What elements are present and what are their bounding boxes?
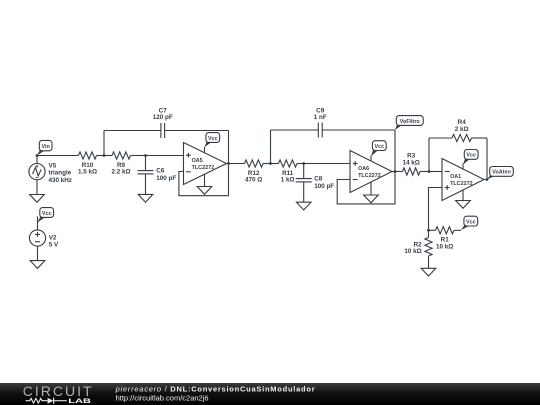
svg-text:470 Ω: 470 Ω: [245, 177, 262, 184]
resistor R9 2.2 k&#937;: [111, 152, 130, 176]
svg-text:C6: C6: [156, 168, 165, 175]
svg-text:100 pF: 100 pF: [314, 183, 334, 190]
footer bar: [0, 383, 540, 405]
svg-text:1 kΩ: 1 kΩ: [281, 177, 295, 184]
power flag Vcc (OA1): [463, 150, 478, 165]
junction R1/R2: [427, 229, 430, 232]
svg-text:2 kΩ: 2 kΩ: [455, 126, 469, 133]
ground (OA1): [456, 201, 471, 209]
svg-text:Vcc: Vcc: [375, 144, 385, 150]
ground (OA6): [364, 195, 379, 203]
resistor R1 10 k&#937;: [436, 227, 455, 251]
node label Vin: [37, 140, 52, 155]
wire Vcc flag to V2: [37, 216, 39, 230]
wire R9 to node: [131, 155, 146, 157]
wire C9 branch left: [271, 130, 319, 164]
power flag Vcc (OA6): [371, 141, 386, 157]
svg-text:10 kΩ: 10 kΩ: [404, 248, 421, 255]
wire node to OA1 -in: [429, 171, 442, 173]
resistor R11 1 k&#937;: [279, 160, 298, 184]
svg-text:VoAten: VoAten: [492, 170, 510, 176]
node label VoFiltro: [395, 116, 423, 130]
op-amp OA5 TLC2272: [184, 143, 227, 185]
ground (V5): [30, 195, 45, 203]
voltage source V2 5 V: [29, 230, 59, 261]
ground (R2): [421, 268, 436, 276]
wire R12 to node: [263, 163, 271, 165]
ground (C8): [296, 202, 311, 210]
wire C7 branch left: [104, 131, 161, 156]
capacitor C7 120 pF: [153, 107, 173, 138]
wire node to R1: [429, 229, 436, 231]
svg-text:1.5 kΩ: 1.5 kΩ: [78, 169, 97, 176]
wire C7 branch right: [165, 131, 229, 164]
svg-text:TLC2272: TLC2272: [450, 181, 472, 187]
footer title text: [115, 384, 316, 393]
svg-text:Vcc: Vcc: [466, 153, 476, 159]
svg-text:OA6: OA6: [358, 166, 369, 172]
wire OA1 +in to R1/R2 node: [429, 188, 443, 231]
wire OA6 feedback: [337, 172, 395, 204]
ground (V2): [30, 261, 45, 269]
wire node to OA5 +in: [146, 155, 184, 157]
junction OA5 output: [227, 162, 230, 165]
wire Vin node to R10: [37, 155, 79, 157]
ground (OA5): [197, 187, 212, 195]
svg-text:TLC2272: TLC2272: [192, 165, 214, 171]
capacitor C6 100 pF: [138, 156, 177, 195]
wire OA5 output to R12: [227, 163, 245, 165]
CircuitLab logo: [23, 383, 94, 404]
wire node to OA6 +in: [304, 163, 350, 165]
resistor R3 14 k&#937;: [403, 153, 421, 175]
power flag Vcc (R1): [461, 216, 478, 230]
svg-text:Vcc: Vcc: [42, 211, 52, 217]
junction R11/C8/OA6: [302, 162, 305, 165]
ground (C6): [138, 194, 153, 202]
resistor R10 1.5 k&#937;: [78, 152, 97, 176]
wire R4 branch left: [429, 138, 452, 172]
resistor R2 10 k&#937;: [404, 230, 432, 268]
svg-text:430 kHz: 430 kHz: [49, 177, 72, 184]
resistor R12 470 &#937;: [245, 160, 264, 184]
capacitor C9 1 nF: [314, 107, 327, 137]
svg-text:120 pF: 120 pF: [153, 114, 173, 121]
svg-text:C8: C8: [314, 176, 323, 183]
wire OA1 output: [484, 179, 487, 181]
node label VoAten: [487, 167, 513, 180]
wire OA5 feedback: [179, 164, 229, 196]
junction R10/R9/C7: [103, 154, 106, 157]
svg-text:10 kΩ: 10 kΩ: [436, 243, 453, 250]
power flag Vcc (OA5): [205, 133, 220, 148]
junction OA6 output: [394, 170, 397, 173]
capacitor C8 100 pF: [296, 164, 335, 203]
svg-text:100 pF: 100 pF: [156, 175, 176, 182]
wire OA6 ground stem: [370, 182, 372, 195]
svg-text:2.2 kΩ: 2.2 kΩ: [111, 169, 130, 176]
junction R9/C6/OA5: [144, 154, 147, 157]
resistor R4 2 k&#937;: [452, 119, 472, 141]
wire R1 to Vcc flag: [454, 229, 461, 231]
svg-text:Vcc: Vcc: [208, 136, 218, 142]
wire OA5 ground stem: [204, 174, 206, 186]
svg-text:5 V: 5 V: [49, 242, 59, 249]
svg-text:pierreacero / DNL:ConversionCu: pierreacero / DNL:ConversionCuaSinModula…: [115, 384, 316, 393]
junction Vin node: [36, 154, 39, 157]
svg-text:triangle: triangle: [49, 170, 72, 177]
op-amp OA6 TLC2272: [350, 151, 392, 193]
power flag Vcc (V2): [38, 208, 54, 223]
wire R3 to node: [420, 171, 429, 173]
wire R10 to node: [97, 155, 105, 157]
wire R11 to node: [297, 163, 304, 165]
junction R3/R4/OA1: [428, 170, 431, 173]
wire C9 branch right: [322, 130, 395, 172]
svg-text:14 kΩ: 14 kΩ: [403, 159, 420, 166]
wire OA6 output to R3: [392, 171, 403, 173]
svg-text:Vin: Vin: [42, 144, 50, 150]
svg-text:http://circuitlab.com/c2an2j6: http://circuitlab.com/c2an2j6: [116, 393, 209, 402]
svg-text:1 nF: 1 nF: [314, 114, 327, 121]
op-amp OA1 TLC2272: [442, 159, 484, 201]
wire node to R11: [271, 163, 279, 165]
svg-text:TLC2272: TLC2272: [358, 173, 380, 179]
junction R12/R11/C9: [269, 162, 272, 165]
svg-text:OA1: OA1: [450, 174, 461, 180]
wire node to R9: [104, 155, 112, 157]
wire R4 branch right: [472, 138, 488, 180]
footer url text: [116, 393, 209, 402]
voltage source V5 triangle 430 kHz: [29, 156, 72, 195]
svg-text:V5: V5: [49, 162, 57, 169]
junction OA1 output: [486, 178, 489, 181]
svg-text:Vcc: Vcc: [466, 219, 476, 225]
svg-text:LAB: LAB: [68, 397, 91, 404]
svg-text:VoFiltro: VoFiltro: [400, 119, 421, 125]
wire OA1 ground stem: [462, 190, 464, 201]
svg-text:V2: V2: [49, 234, 57, 241]
svg-text:OA5: OA5: [192, 158, 203, 164]
